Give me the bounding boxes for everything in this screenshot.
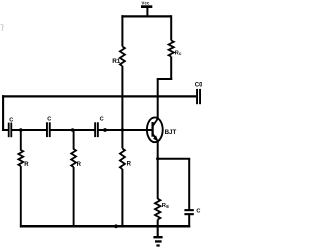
capacitor C (first) plate 1 <box>8 123 10 138</box>
resistor Rc <box>169 41 174 57</box>
Vcc supply bar <box>141 5 152 8</box>
svg-text:C: C <box>9 117 13 123</box>
wire: R1 to base line <box>121 66 123 149</box>
wire: base line lead to first C <box>3 129 8 131</box>
wire: ground rail <box>20 225 190 228</box>
wire: left feedback vertical <box>2 95 4 131</box>
transistor collector diagonal <box>153 118 158 126</box>
wire: third shunt R to ground rail <box>121 169 123 227</box>
capacitor C (first) plate 2 <box>10 123 12 138</box>
svg-text:BJT: BJT <box>165 129 177 136</box>
svg-text:E: E <box>166 204 169 209</box>
svg-text:Vcc: Vcc <box>142 0 151 5</box>
svg-text:C: C <box>196 209 200 215</box>
svg-text:C: C <box>100 117 104 123</box>
wire: R1 branch vertical (Vcc rail down to base node) <box>121 15 123 46</box>
wire: base line segment 3 <box>50 129 95 131</box>
wire: bypass capacitor bottom lead <box>188 215 190 227</box>
ground symbol <box>153 226 162 246</box>
resistor R (third shunt, base to ground) <box>120 149 125 170</box>
resistor RE <box>155 199 160 220</box>
wire: branch to bypass capacitor <box>158 158 191 160</box>
capacitor C (bypass) bottom plate <box>184 213 193 215</box>
svg-text:C0: C0 <box>195 82 202 88</box>
faint scan artifact top-left <box>1 25 4 32</box>
svg-text:R1: R1 <box>112 58 121 65</box>
transistor base bar <box>151 122 153 137</box>
transistor emitter diagonal <box>153 134 158 141</box>
wire: RE to ground rail <box>157 220 159 228</box>
transistor Q1 BJT ellipse <box>147 117 163 142</box>
resistor R (first shunt) <box>18 150 23 166</box>
node dot (emitter branch) <box>156 157 159 160</box>
wire: collector vertical <box>157 79 159 119</box>
capacitor C (second) plate 2 <box>49 122 51 137</box>
capacitor C0 plate 1 <box>196 89 198 104</box>
wire: emitter vertical <box>157 141 159 199</box>
capacitor C (third) plate 2 <box>97 122 99 137</box>
capacitor C (second) plate 1 <box>46 122 48 137</box>
capacitor C0 plate 2 <box>199 89 201 104</box>
resistor R1 <box>120 47 125 67</box>
wire: Rc down to step corner <box>170 57 172 81</box>
transistor emitter arrowhead <box>153 135 158 141</box>
wire: step horizontal to collector line <box>157 78 173 80</box>
wire: base line segment 2 <box>12 129 47 131</box>
resistor R (second shunt) <box>71 149 76 167</box>
node dot (after third C) <box>103 128 107 132</box>
capacitor C (bypass) top plate <box>184 209 193 211</box>
wire: base line segment 4 into transistor <box>99 129 152 131</box>
node dot (second R junction) <box>71 128 75 132</box>
wire: top supply rail <box>121 15 171 17</box>
svg-text:C: C <box>47 117 51 123</box>
svg-text:R: R <box>77 162 82 168</box>
capacitor C (third) plate 1 <box>94 122 96 137</box>
wire: output/feedback line <box>2 95 196 97</box>
wire: Vcc stem <box>146 8 148 18</box>
wire: bypass capacitor top lead <box>188 159 190 210</box>
wire: second shunt R leads <box>73 130 75 150</box>
svg-text:R: R <box>24 162 29 168</box>
node dot (on ground rail) <box>114 224 118 228</box>
wire: first shunt R leads <box>20 130 22 151</box>
wire: Rc branch vertical from rail <box>170 15 172 40</box>
node dot (first R junction) <box>19 128 23 132</box>
svg-text:R: R <box>127 162 132 168</box>
node dot (bias junction at base) <box>121 128 124 131</box>
